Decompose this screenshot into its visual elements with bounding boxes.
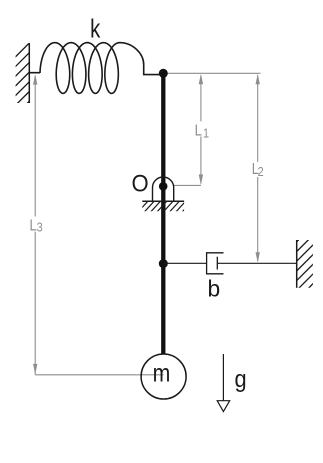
label L1 (195, 122, 210, 140)
damper b: rod to cylinder (163, 262, 206, 264)
svg-text:m: m (153, 359, 171, 387)
svg-text:3: 3 (37, 219, 43, 234)
svg-text:k: k (90, 14, 100, 43)
dimension L1 (174, 76, 201, 186)
label L2 (252, 161, 264, 179)
damper b: piston (216, 257, 218, 270)
node A: spring attachment (159, 69, 168, 78)
gravity g: arrow shaft (222, 354, 224, 401)
pivot O: dome bracket (153, 177, 174, 201)
svg-text:L: L (29, 217, 36, 234)
pivot O: pin (159, 182, 168, 191)
svg-text:L: L (195, 122, 202, 139)
dimension L3 (35, 76, 163, 375)
wall anchor right (296, 240, 298, 288)
wire: top reference line from node A to L2 (167, 72, 261, 74)
label L3 (29, 217, 42, 234)
svg-text:O: O (132, 170, 149, 197)
pivot ground line (142, 200, 184, 202)
svg-text:g: g (235, 365, 247, 392)
wall anchor top-left (28, 43, 30, 103)
mass m: circle (141, 354, 186, 399)
pivot ground hatch (138, 201, 193, 213)
gravity g: open arrowhead (217, 401, 230, 412)
svg-text:1: 1 (203, 125, 209, 140)
dimension L2 (257, 76, 259, 262)
svg-text:2: 2 (258, 164, 264, 179)
rod (pendulum bar) (161, 73, 165, 354)
node B: damper attachment (159, 259, 168, 268)
damper b: cylinder (207, 253, 224, 274)
damper b: rod to wall (217, 262, 296, 264)
spring k (29, 43, 159, 94)
svg-text:b: b (207, 275, 220, 301)
